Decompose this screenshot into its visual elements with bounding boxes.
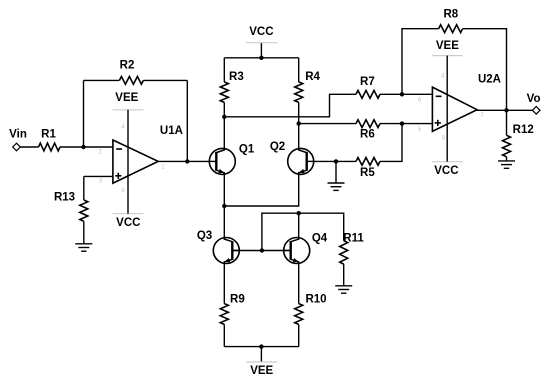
wire R7 to minus node: [380, 93, 432, 95]
VCC top bar: [246, 42, 277, 44]
svg-text:R6: R6: [360, 129, 375, 141]
wire VEE bottom rail: [224, 346, 298, 348]
wire R5 right up to + node: [380, 124, 402, 162]
wire R2 top right: [143, 79, 187, 81]
node Q2 base/ground/R5 junction: [334, 159, 338, 163]
resistor R7: [356, 90, 380, 98]
wire + down to R13: [83, 176, 85, 200]
op-amp U2A: [432, 87, 477, 131]
svg-text:R12: R12: [513, 124, 534, 136]
wire R11 to ground: [343, 264, 345, 286]
node output/R2 junction: [185, 159, 189, 163]
op-amp U1A: [113, 140, 158, 183]
node VEE rail junction: [259, 344, 263, 348]
VEE bottom stub: [260, 347, 262, 362]
power line U1A VEE/VCC vertical: [127, 110, 129, 214]
wire R3 node to R7: [224, 94, 356, 117]
svg-text:R13: R13: [54, 192, 75, 204]
svg-text:Vin: Vin: [9, 129, 27, 141]
wire emitters tie: [224, 174, 298, 206]
svg-text:R11: R11: [343, 233, 364, 245]
wire Vin to R1: [20, 146, 38, 148]
wire R3 to Q1 collector: [223, 102, 225, 149]
svg-text:R5: R5: [360, 167, 375, 179]
svg-text:Vo: Vo: [527, 93, 541, 105]
wire R2 top left: [84, 79, 120, 81]
wire R9 to rail: [223, 324, 225, 346]
resistor R3: [220, 82, 228, 103]
ground under R12: [498, 160, 515, 162]
resistor R5: [356, 158, 380, 166]
wire R8 right down to output: [463, 29, 507, 111]
resistor R8: [439, 25, 463, 33]
U1A plus sign: [115, 175, 121, 177]
node R6/R5/U2A+ junction: [400, 121, 404, 125]
svg-text:R4: R4: [305, 71, 320, 83]
svg-text:R7: R7: [360, 76, 375, 88]
wire output to R12: [506, 110, 508, 135]
wire R4 node to R6: [299, 123, 356, 125]
transistor Q4: [284, 238, 310, 264]
svg-text:VCC: VCC: [249, 26, 273, 38]
node output/R12 junction: [504, 108, 508, 112]
wire base tie Q3-Q4: [232, 250, 290, 252]
U2A plus sign: [435, 122, 441, 124]
wire VCC rail: [224, 57, 298, 59]
wire R8 feedback loop: [402, 29, 439, 95]
svg-text:R9: R9: [230, 294, 245, 306]
U1A minus sign: [116, 148, 122, 150]
VCC top symbol stub: [260, 43, 262, 58]
resistor R11: [340, 241, 348, 265]
svg-text:U1A: U1A: [160, 125, 183, 137]
node VCC rail junction: [259, 56, 263, 60]
svg-text:R2: R2: [120, 60, 135, 72]
resistor R12: [503, 135, 511, 157]
resistor R1: [39, 143, 61, 151]
svg-text:VCC: VCC: [434, 165, 458, 177]
wire R12 to ground: [506, 157, 508, 161]
wire R6 to plus node: [380, 123, 432, 125]
ground at Q2 base: [328, 182, 345, 184]
resistor R2: [119, 77, 143, 85]
wire Q3 emitter to R9: [223, 263, 225, 303]
svg-text:VEE: VEE: [436, 40, 459, 52]
power line U2A vertical: [446, 56, 448, 162]
svg-text:Q1: Q1: [239, 144, 255, 156]
node base tie junction: [260, 248, 264, 252]
wire rail to R3: [223, 58, 225, 82]
wire R4 to Q2 collector: [298, 102, 300, 149]
node Q4 collector/R11 junction: [297, 211, 301, 215]
svg-text:VCC: VCC: [116, 217, 140, 229]
wire ground stub: [335, 161, 337, 183]
svg-text:VEE: VEE: [250, 365, 273, 377]
wire R13 to ground: [83, 221, 85, 244]
wire Q2 base to ground node: [314, 160, 356, 162]
transistor Q3: [213, 238, 239, 264]
wire R1 to node: [60, 146, 113, 148]
ground under R11: [335, 285, 352, 287]
svg-text:R10: R10: [305, 294, 326, 306]
VCC bar U1A: [113, 213, 144, 215]
svg-text:Q2: Q2: [270, 141, 285, 153]
U2A minus sign: [436, 95, 442, 97]
wire U1A output to Q1 base: [158, 160, 209, 162]
node R1/R2/U1A- junction: [81, 145, 85, 149]
ground under R13: [75, 243, 92, 245]
svg-text:R3: R3: [229, 71, 244, 83]
wire Q4 emitter to R10: [298, 263, 300, 303]
wire U1A+ input: [84, 175, 113, 177]
wire Q1 emitter down: [223, 174, 225, 237]
resistor R9: [220, 304, 228, 325]
VCC bar U2A: [432, 161, 463, 163]
wire R2 left vertical: [83, 80, 85, 147]
wire U2A output to Vo: [477, 109, 532, 111]
VEE bar U2A: [432, 55, 463, 57]
transistor Q2: [288, 148, 314, 174]
transistor Q1: [209, 148, 235, 174]
node R4 bottom junction: [297, 121, 301, 125]
node R3 bottom junction: [222, 115, 226, 119]
svg-text:Q4: Q4: [312, 232, 328, 244]
svg-text:R8: R8: [443, 9, 458, 21]
resistor R10: [295, 304, 303, 325]
terminal Vo: [532, 107, 540, 115]
svg-text:VEE: VEE: [115, 92, 138, 104]
node emitters junction: [222, 204, 226, 208]
terminal Vin: [13, 143, 21, 151]
wire rail to R4: [298, 58, 300, 82]
VEE bottom bar: [246, 361, 277, 363]
wire R10 to rail: [298, 324, 300, 346]
wire R2 right vertical: [186, 80, 188, 161]
resistor R6: [356, 120, 380, 128]
node R7/R8/U2A- junction: [400, 92, 404, 96]
wire Q4 collector up: [298, 213, 300, 238]
VEE bar U1A: [113, 109, 144, 111]
wire base tie up and right to R11: [262, 213, 344, 250]
resistor R13: [80, 200, 88, 221]
svg-text:Q3: Q3: [197, 230, 212, 242]
svg-text:R1: R1: [41, 129, 56, 141]
resistor R4: [295, 82, 303, 103]
svg-text:U2A: U2A: [478, 73, 501, 85]
